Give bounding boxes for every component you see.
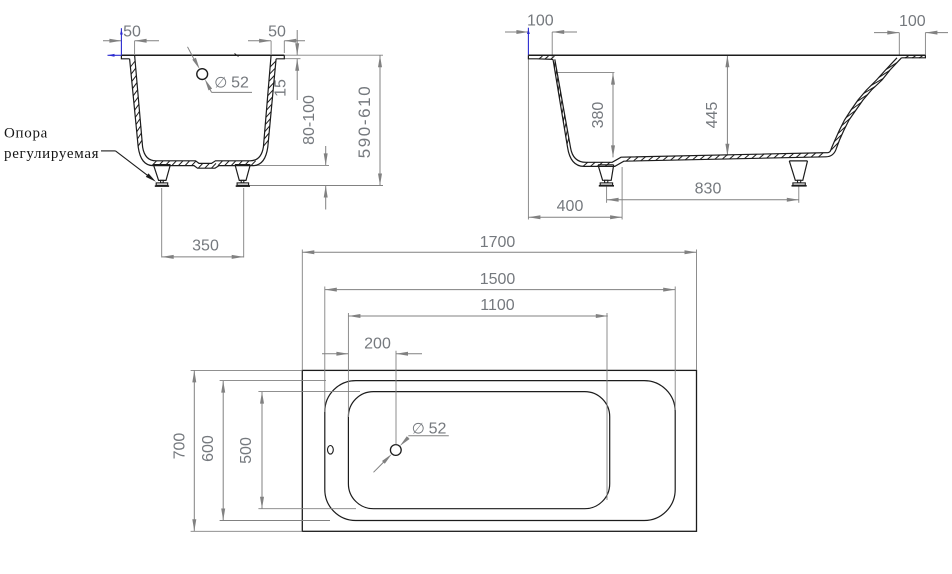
svg-text:100: 100: [899, 13, 926, 30]
svg-text:500: 500: [238, 437, 255, 464]
svg-text:600: 600: [200, 435, 217, 462]
svg-text:52: 52: [231, 74, 249, 91]
svg-text:700: 700: [172, 433, 189, 460]
svg-text:830: 830: [695, 181, 722, 198]
svg-text:350: 350: [192, 238, 219, 255]
svg-text:400: 400: [557, 198, 584, 215]
svg-text:1100: 1100: [480, 297, 515, 314]
svg-text:1700: 1700: [480, 234, 516, 251]
svg-text:15: 15: [273, 79, 290, 97]
svg-text:590-610: 590-610: [355, 85, 374, 159]
svg-text:50: 50: [268, 24, 286, 41]
svg-text:380: 380: [590, 102, 607, 129]
svg-text:∅: ∅: [214, 74, 227, 91]
svg-text:200: 200: [364, 336, 391, 353]
svg-text:80-100: 80-100: [301, 95, 318, 145]
svg-text:регулируемая: регулируемая: [4, 146, 99, 162]
svg-text:50: 50: [123, 24, 141, 41]
svg-text:∅: ∅: [412, 421, 425, 438]
svg-text:445: 445: [704, 102, 721, 129]
svg-text:100: 100: [527, 13, 554, 30]
svg-text:Опора: Опора: [4, 126, 48, 142]
svg-text:1500: 1500: [480, 271, 516, 288]
svg-text:52: 52: [429, 421, 447, 438]
